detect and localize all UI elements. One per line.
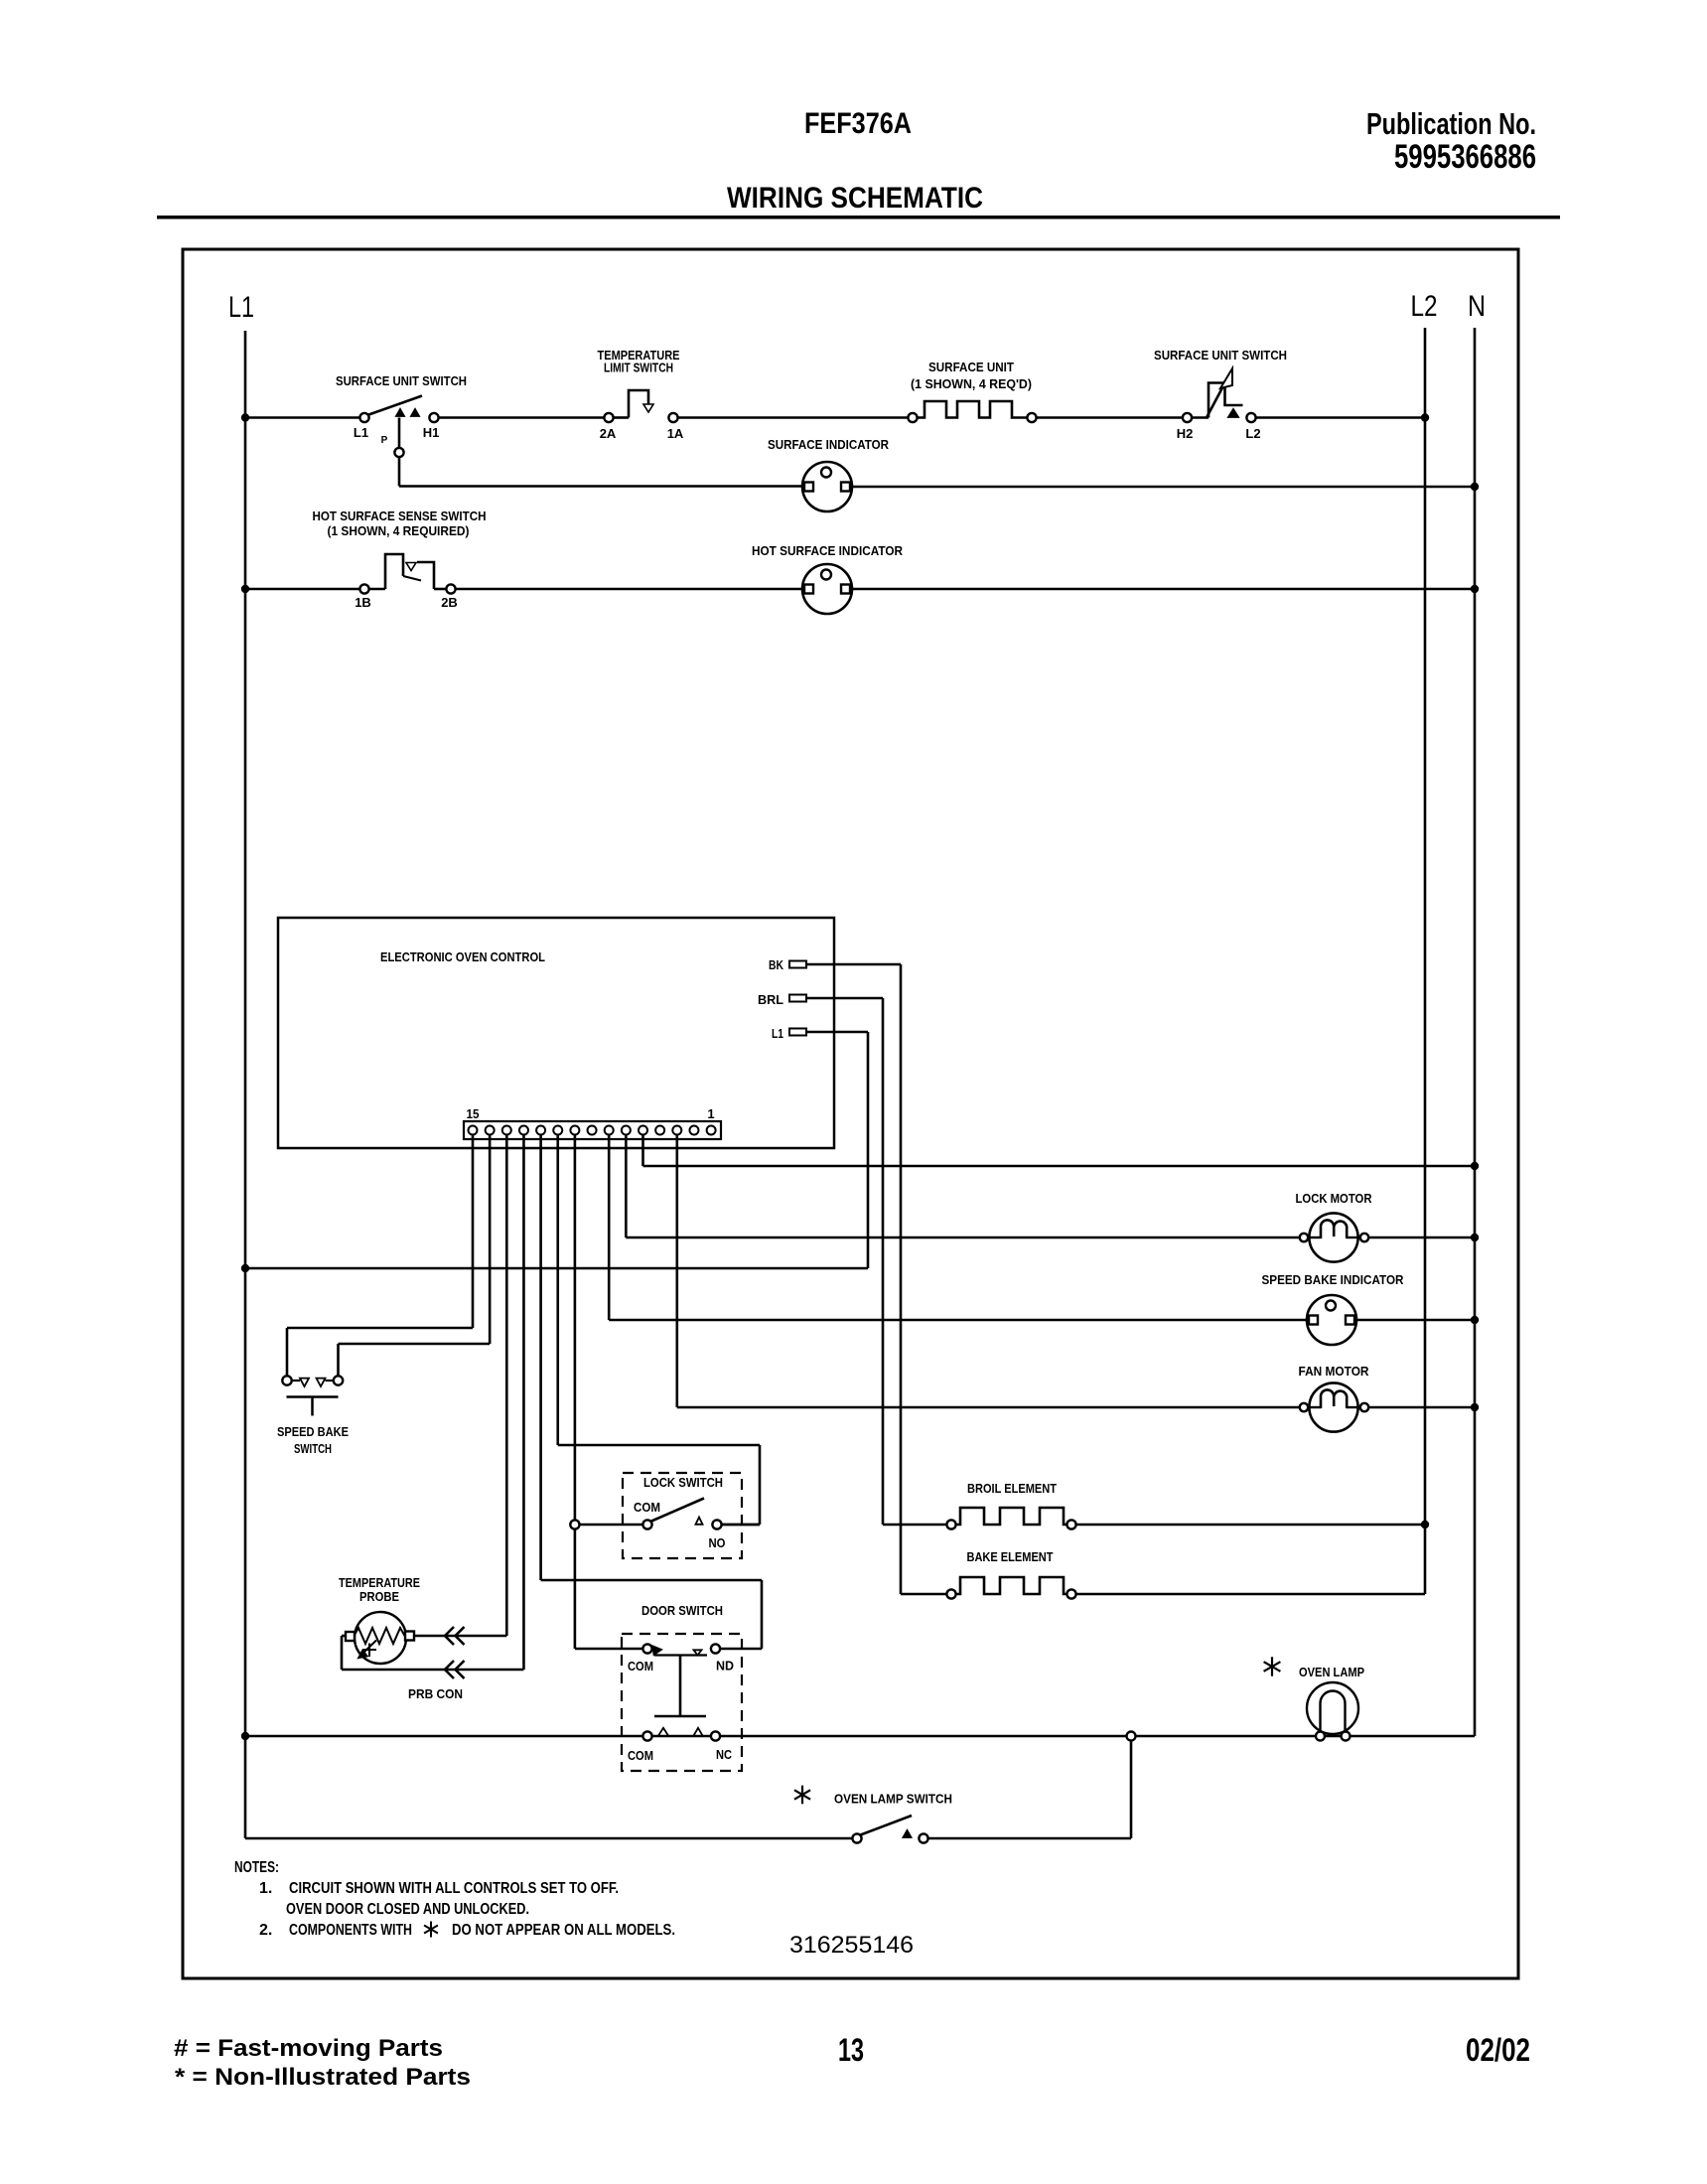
svg-text:L1: L1 — [228, 291, 254, 324]
svg-text:1A: 1A — [667, 426, 684, 441]
svg-text:(1 SHOWN, 4 REQ'D): (1 SHOWN, 4 REQ'D) — [911, 376, 1032, 391]
svg-text:LIMIT SWITCH: LIMIT SWITCH — [604, 361, 673, 375]
svg-text:L2: L2 — [1411, 290, 1438, 323]
svg-text:1: 1 — [707, 1106, 714, 1121]
svg-text:NOTES:: NOTES: — [234, 1859, 279, 1876]
svg-text:N: N — [1468, 290, 1486, 323]
svg-text:HOT SURFACE INDICATOR: HOT SURFACE INDICATOR — [752, 543, 904, 558]
svg-text:ND: ND — [716, 1659, 734, 1674]
svg-text:NO: NO — [709, 1535, 726, 1550]
svg-text:L1: L1 — [354, 425, 368, 440]
svg-text:BK: BK — [769, 957, 783, 972]
svg-text:Publication No.: Publication No. — [1366, 106, 1536, 141]
svg-text:BROIL ELEMENT: BROIL ELEMENT — [967, 1481, 1057, 1496]
svg-text:BRL: BRL — [758, 992, 783, 1007]
svg-text:5995366886: 5995366886 — [1394, 138, 1536, 176]
svg-text:* = Non-Illustrated Parts: * = Non-Illustrated Parts — [175, 2064, 471, 2091]
svg-text:P: P — [381, 435, 388, 446]
svg-text:CIRCUIT SHOWN WITH ALL CONTROL: CIRCUIT SHOWN WITH ALL CONTROLS SET TO O… — [289, 1880, 619, 1897]
svg-text:SURFACE INDICATOR: SURFACE INDICATOR — [768, 437, 890, 452]
svg-text:OVEN LAMP: OVEN LAMP — [1299, 1665, 1364, 1679]
svg-text:# = Fast-moving Parts: # = Fast-moving Parts — [174, 2035, 443, 2062]
svg-text:2.: 2. — [259, 1922, 272, 1939]
svg-text:316255146: 316255146 — [789, 1932, 914, 1959]
svg-text:HOT SURFACE SENSE SWITCH: HOT SURFACE SENSE SWITCH — [313, 509, 487, 523]
svg-text:FAN MOTOR: FAN MOTOR — [1299, 1364, 1370, 1379]
svg-text:BAKE ELEMENT: BAKE ELEMENT — [967, 1549, 1054, 1564]
svg-text:LOCK SWITCH: LOCK SWITCH — [643, 1475, 723, 1490]
svg-text:TEMPERATURE: TEMPERATURE — [339, 1575, 420, 1590]
svg-text:COM: COM — [628, 1659, 653, 1674]
svg-text:ELECTRONIC OVEN CONTROL: ELECTRONIC OVEN CONTROL — [380, 949, 545, 964]
svg-text:L2: L2 — [1245, 426, 1260, 441]
svg-text:DOOR SWITCH: DOOR SWITCH — [641, 1603, 723, 1618]
svg-text:L1: L1 — [772, 1026, 783, 1041]
svg-text:1.: 1. — [259, 1880, 272, 1897]
svg-text:H2: H2 — [1177, 426, 1194, 441]
svg-text:SURFACE UNIT SWITCH: SURFACE UNIT SWITCH — [336, 373, 467, 388]
svg-text:DO NOT APPEAR ON ALL MODELS.: DO NOT APPEAR ON ALL MODELS. — [452, 1922, 675, 1939]
svg-text:SURFACE UNIT SWITCH: SURFACE UNIT SWITCH — [1154, 348, 1287, 363]
svg-text:SPEED BAKE INDICATOR: SPEED BAKE INDICATOR — [1262, 1272, 1405, 1287]
svg-text:SURFACE UNIT: SURFACE UNIT — [928, 360, 1014, 374]
svg-text:WIRING SCHEMATIC: WIRING SCHEMATIC — [727, 182, 983, 215]
svg-text:2A: 2A — [600, 426, 617, 441]
svg-text:2B: 2B — [441, 595, 458, 610]
svg-text:OVEN DOOR CLOSED AND UNLOCKED.: OVEN DOOR CLOSED AND UNLOCKED. — [286, 1901, 529, 1918]
svg-text:FEF376A: FEF376A — [804, 107, 912, 140]
svg-text:H1: H1 — [423, 425, 440, 440]
svg-text:PROBE: PROBE — [359, 1589, 399, 1604]
svg-text:15: 15 — [467, 1106, 480, 1121]
svg-text:LOCK MOTOR: LOCK MOTOR — [1296, 1191, 1373, 1206]
svg-text:SPEED BAKE: SPEED BAKE — [277, 1424, 349, 1439]
svg-text:02/02: 02/02 — [1466, 2032, 1530, 2068]
svg-text:COM: COM — [634, 1500, 660, 1515]
svg-text:NC: NC — [716, 1747, 733, 1762]
svg-text:13: 13 — [838, 2032, 864, 2068]
svg-text:OVEN LAMP SWITCH: OVEN LAMP SWITCH — [834, 1792, 952, 1807]
svg-text:1B: 1B — [355, 595, 371, 610]
svg-text:COM: COM — [628, 1748, 653, 1763]
svg-text:(1 SHOWN, 4 REQUIRED): (1 SHOWN, 4 REQUIRED) — [328, 523, 470, 538]
svg-text:COMPONENTS WITH: COMPONENTS WITH — [289, 1922, 412, 1939]
svg-text:SWITCH: SWITCH — [294, 1441, 332, 1456]
svg-text:PRB CON: PRB CON — [408, 1686, 463, 1701]
